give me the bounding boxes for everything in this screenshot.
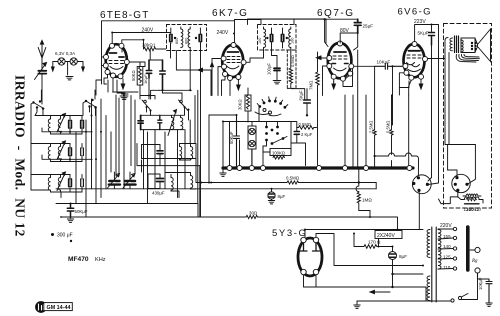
label 1350 ohm	[464, 207, 479, 212]
tube 6V6 envelope	[404, 44, 425, 77]
label 2X240V	[375, 231, 402, 240]
resistor 0,5MO 6V6 grid	[385, 121, 390, 133]
capacitor osc small	[158, 115, 162, 129]
wire avc line	[113, 90, 192, 94]
capacitor IFT1 right	[195, 28, 202, 44]
label coil 100	[258, 38, 262, 44]
label coil 100 second	[291, 38, 295, 44]
wire row1	[31, 116, 92, 144]
selector contact a	[470, 247, 480, 252]
speaker flexible leads	[456, 55, 479, 63]
mains switch	[451, 294, 468, 303]
svg-text:800: 800	[175, 38, 179, 44]
antenna	[38, 41, 46, 59]
tube socket 2	[441, 145, 475, 204]
electrolytic 8uF bus	[278, 194, 286, 199]
svg-text:GM 14-44: GM 14-44	[47, 305, 71, 311]
antenna coil row3 L3a	[48, 175, 50, 193]
tube 6Q7 electrodes	[332, 52, 348, 71]
wire rail 19	[248, 19, 327, 43]
capacitor 5KuF output	[418, 31, 429, 36]
capacitor osc 2	[160, 60, 165, 90]
capacitor 25uF	[363, 24, 374, 29]
output transformer secondary	[461, 40, 463, 52]
power transformer primary winding	[438, 230, 441, 270]
ground 6TE8	[121, 92, 128, 99]
primary taps	[438, 227, 457, 270]
tube 6V6 electrodes	[407, 51, 422, 72]
wire IFT1 below	[171, 44, 212, 218]
power transformer HV winding	[427, 230, 430, 258]
label 240V first	[142, 28, 154, 34]
svg-text:155: 155	[443, 234, 451, 239]
wire bus 217	[61, 216, 397, 218]
svg-text:125: 125	[443, 255, 451, 260]
coil IFT2 secondary	[289, 27, 291, 48]
ground mains cap	[486, 303, 492, 306]
svg-text:1350 Ω: 1350 Ω	[464, 207, 479, 212]
wire pilot lamps	[51, 62, 84, 76]
wire 6Q7 cathode arrow	[332, 82, 336, 89]
capacitor IFT2 left	[266, 28, 273, 43]
wire bus 203	[56, 204, 198, 218]
svg-text:30kΩ1: 30kΩ1	[142, 42, 156, 47]
oscillator coil L2	[181, 115, 183, 129]
wire psu resistor taps	[379, 239, 424, 289]
resistor 30kO1	[142, 42, 156, 47]
oscillator row3 coil B	[191, 173, 193, 190]
bus junction circles	[227, 166, 412, 171]
capacitor IFT1 left	[170, 28, 177, 44]
capacitor 430uF	[157, 174, 164, 189]
resistor 0,5MO agc	[299, 122, 311, 127]
voltage selector bar	[466, 227, 470, 270]
trimmer row2	[69, 144, 72, 162]
band switch contacts osc right	[179, 100, 190, 120]
label 125	[443, 255, 451, 260]
svg-text:240V: 240V	[217, 30, 229, 36]
svg-text:1KμF: 1KμF	[143, 74, 148, 84]
svg-text:50KΩ: 50KΩ	[131, 70, 136, 81]
pilot lamp 2	[70, 58, 77, 65]
wave switch rotor upper	[255, 97, 288, 116]
svg-text:8μF: 8μF	[278, 194, 286, 199]
coil IFT1 secondary	[188, 27, 190, 48]
label 6,3V 0,3A	[55, 51, 76, 56]
capacitor row2 mid	[157, 145, 163, 159]
label 1KuF	[143, 74, 148, 84]
wire right verticals	[318, 50, 409, 168]
svg-text:7MΩ: 7MΩ	[309, 80, 314, 90]
ground 6TE8 bottom	[122, 93, 129, 95]
wire 6V6 cathode arrow	[419, 79, 423, 89]
wire 6TE8 pin leads	[102, 57, 146, 92]
svg-text:6K7-G: 6K7-G	[212, 8, 248, 19]
label 1350 ohm	[466, 207, 481, 212]
resistor 30O	[249, 211, 258, 216]
wire mid feeders	[119, 96, 200, 218]
oscillator row3 coil A	[171, 175, 173, 192]
label 220V	[440, 223, 452, 229]
svg-text:Rɡ: Rɡ	[471, 259, 478, 264]
label 80V	[340, 28, 350, 34]
wire 25uF down	[340, 33, 358, 50]
wire bus 233	[316, 217, 423, 266]
padder capacitor	[248, 122, 256, 168]
oscillator coil L1	[168, 110, 177, 136]
svg-text:MF470: MF470	[68, 256, 89, 263]
antenna coil row3 L3b with core arrow	[57, 172, 66, 192]
speaker dashed box	[444, 24, 492, 209]
wire 6V6 pin leads	[392, 59, 446, 96]
svg-text:220V: 220V	[440, 223, 452, 229]
tube 6Q7 envelope	[328, 43, 352, 78]
wire 6TE8 plate to IFT1	[112, 33, 170, 44]
trimmer row3	[69, 175, 72, 193]
svg-text:25μF: 25μF	[363, 24, 374, 29]
IF transformer 2 box	[258, 25, 297, 51]
oscillator coil assembly rails	[141, 115, 184, 129]
oscillator row2 coil A	[180, 144, 182, 161]
svg-text:2X240V: 2X240V	[377, 233, 395, 239]
resistor 0,5MO screen	[290, 55, 295, 67]
tube 5Y3 envelope	[298, 238, 322, 276]
wire row2	[31, 155, 92, 175]
electrolytic 8uF psu	[399, 254, 407, 259]
capacitor row3 small	[81, 175, 84, 193]
svg-text:6,3V 0,3A: 6,3V 0,3A	[55, 51, 76, 56]
capacitor 300uF note	[57, 233, 73, 239]
trimmer row1 Cb	[81, 116, 84, 135]
svg-text:430μF: 430μF	[152, 191, 165, 196]
label 223V	[414, 19, 426, 25]
wire 6K7 pin leads	[210, 58, 263, 96]
svg-text:0,5MΩ: 0,5MΩ	[299, 122, 311, 127]
coil IFT2 primary	[264, 27, 266, 48]
capacitor 5KuF det	[298, 90, 303, 101]
antenna coil row1 L1a	[48, 116, 50, 135]
svg-text:6Q7-G: 6Q7-G	[317, 8, 355, 19]
resistor 2,5MO	[368, 121, 373, 133]
label MF470KHz	[68, 256, 106, 263]
tube 6Q7 pins	[327, 41, 354, 81]
wave switch rotor lower	[223, 108, 297, 146]
wire 6TE8 pins down	[96, 48, 122, 95]
wire left bank feeders	[76, 95, 116, 217]
resistor 7MO	[309, 80, 314, 90]
label 140	[443, 244, 451, 249]
svg-text:0,5MΩ: 0,5MΩ	[385, 121, 390, 133]
oscillator row2 coil B	[191, 144, 193, 161]
wire mains bottom	[357, 273, 478, 301]
capacitor padding osc	[138, 115, 143, 129]
wire agc	[291, 122, 306, 166]
label 6TE8-GT	[100, 10, 150, 21]
svg-text:8μF: 8μF	[399, 254, 407, 259]
capacitor 50KuF cathode	[75, 209, 88, 214]
wire row3	[31, 190, 82, 198]
wire bus 227	[305, 229, 423, 231]
tube 5Y3 electrodes	[300, 243, 320, 251]
resistor 170O	[368, 240, 381, 245]
wire top rail	[102, 18, 358, 84]
svg-text:140: 140	[443, 244, 451, 249]
label coil 800	[175, 38, 179, 44]
label Rg script	[471, 259, 478, 264]
IF transformer 1 box	[167, 25, 207, 51]
main bus thick	[223, 166, 413, 169]
wire 6K7 cathode arrow	[237, 80, 241, 91]
label 110	[443, 265, 451, 270]
svg-text:6V6-G: 6V6-G	[398, 7, 432, 18]
field coil	[458, 197, 483, 204]
svg-text:10KμF: 10KμF	[377, 60, 391, 65]
label 240V second	[217, 30, 229, 36]
capacitor 10KuF coupling	[377, 60, 391, 65]
output transformer primary coil	[450, 38, 453, 51]
wire transformer bottom arrow	[370, 287, 426, 301]
svg-text:30KΩ: 30KΩ	[238, 99, 243, 110]
resistor 0,5MO bus	[286, 175, 300, 180]
tube 6TE8 pins	[103, 43, 129, 79]
tube 6V6 pins	[403, 42, 428, 81]
svg-text:100: 100	[258, 38, 262, 44]
capacitor osc grid	[146, 60, 151, 78]
svg-text:110: 110	[443, 265, 451, 270]
svg-text:100μF: 100μF	[267, 63, 272, 75]
ground transformer	[354, 301, 360, 308]
band switch contacts osc left	[142, 100, 152, 115]
power transformer LV winding	[427, 276, 430, 301]
trimmer capacitor antenna	[35, 58, 47, 104]
tube socket 1	[412, 175, 438, 230]
antenna coil row1 L1b with core arrow	[57, 114, 66, 135]
wire bus 189	[56, 188, 376, 190]
svg-text:6TE8-GT: 6TE8-GT	[100, 10, 150, 21]
tuning gang capacitor 1	[108, 172, 121, 189]
label 6K7-G	[212, 8, 248, 19]
svg-text:5KμF: 5KμF	[298, 90, 303, 101]
svg-text:2 KμF: 2 KμF	[301, 132, 313, 137]
svg-text:100: 100	[291, 38, 295, 44]
ground 8uF bus	[268, 199, 274, 204]
svg-text:50KμF: 50KμF	[75, 209, 88, 214]
coil IFT1 primary	[181, 27, 183, 48]
wire 6Q7 pin leads	[316, 56, 375, 96]
pilot lamp 1	[58, 58, 65, 65]
title IRRADIO Mod. NU 12	[13, 75, 28, 237]
resistor 1MO	[362, 198, 372, 203]
label coil 800 second	[185, 38, 189, 44]
ground pilot lamps	[66, 77, 73, 80]
svg-text:5KμF: 5KμF	[418, 31, 429, 36]
band switch antenna section B	[83, 90, 97, 116]
label 155	[443, 234, 451, 239]
svg-text:1MΩ: 1MΩ	[362, 198, 372, 203]
capacitor 100uF	[267, 63, 272, 75]
svg-text:170 Ω: 170 Ω	[368, 240, 381, 245]
wire speaker box	[432, 38, 476, 204]
resistor 100KO boxed	[272, 151, 285, 156]
wire 6K7 top cap	[233, 20, 235, 45]
capacitor row2 small	[81, 144, 84, 162]
tube 6TE8 envelope	[106, 44, 127, 77]
svg-text:0,5MΩ: 0,5MΩ	[286, 175, 300, 180]
wire osc section	[140, 60, 163, 99]
ground bus	[220, 168, 226, 177]
band switch antenna section A	[31, 90, 44, 190]
capacitor 10KuF mains	[478, 277, 483, 290]
svg-text:100KΩ: 100KΩ	[272, 151, 285, 156]
trimmer row1 Ca	[69, 116, 72, 135]
wire 223V rail	[415, 25, 439, 96]
field coil	[463, 194, 481, 201]
wire mid verticals	[198, 90, 263, 203]
wire 182 wrap	[375, 183, 377, 189]
wire IFT2 below	[264, 43, 291, 58]
capacitor 2KuF	[301, 132, 313, 137]
wire osc block feeds	[144, 90, 196, 203]
tube 6K7 envelope	[222, 45, 243, 77]
tube 5Y3 pins	[301, 237, 319, 274]
wire osc row3	[148, 166, 196, 198]
capacitor IFT2 right	[281, 28, 288, 43]
resistor 30KO ave	[238, 99, 243, 110]
svg-text:300 μF: 300 μF	[57, 233, 73, 239]
antenna coil row2 L2b with core arrow	[57, 141, 66, 162]
capacitor 50KuF ave	[229, 131, 234, 144]
label 6V6-G	[398, 7, 432, 18]
svg-text:KHz: KHz	[95, 257, 106, 263]
ground 50KuF	[67, 219, 73, 222]
svg-text:IRRADIO - Mod. NU 12: IRRADIO - Mod. NU 12	[13, 75, 28, 237]
power transformer core	[432, 227, 436, 302]
resistor 50KO osc	[131, 70, 136, 81]
logo GM 14-44	[35, 301, 72, 313]
speaker body	[461, 29, 491, 62]
tuning gang capacitor 2	[123, 172, 136, 189]
tube 6TE8 electrodes	[109, 53, 124, 69]
output transformer core	[455, 36, 459, 53]
ground coil bank top	[117, 93, 127, 99]
svg-text:2,5MΩ: 2,5MΩ	[368, 121, 373, 133]
wire 5Y3 top	[305, 230, 316, 238]
wire 6TE8 cathode arrow	[121, 79, 125, 89]
wire 5Y3 bottom	[304, 275, 427, 287]
label 6Q7-G	[317, 8, 355, 19]
label 5Y3-G	[272, 228, 307, 239]
wire heater socket line	[375, 153, 419, 175]
tube 6K7 electrodes	[227, 52, 241, 69]
antenna coil row2 L2a	[48, 144, 50, 162]
selector contact b	[475, 268, 480, 273]
wire osc row2	[137, 144, 200, 166]
tube 6K7 pins	[221, 43, 246, 81]
